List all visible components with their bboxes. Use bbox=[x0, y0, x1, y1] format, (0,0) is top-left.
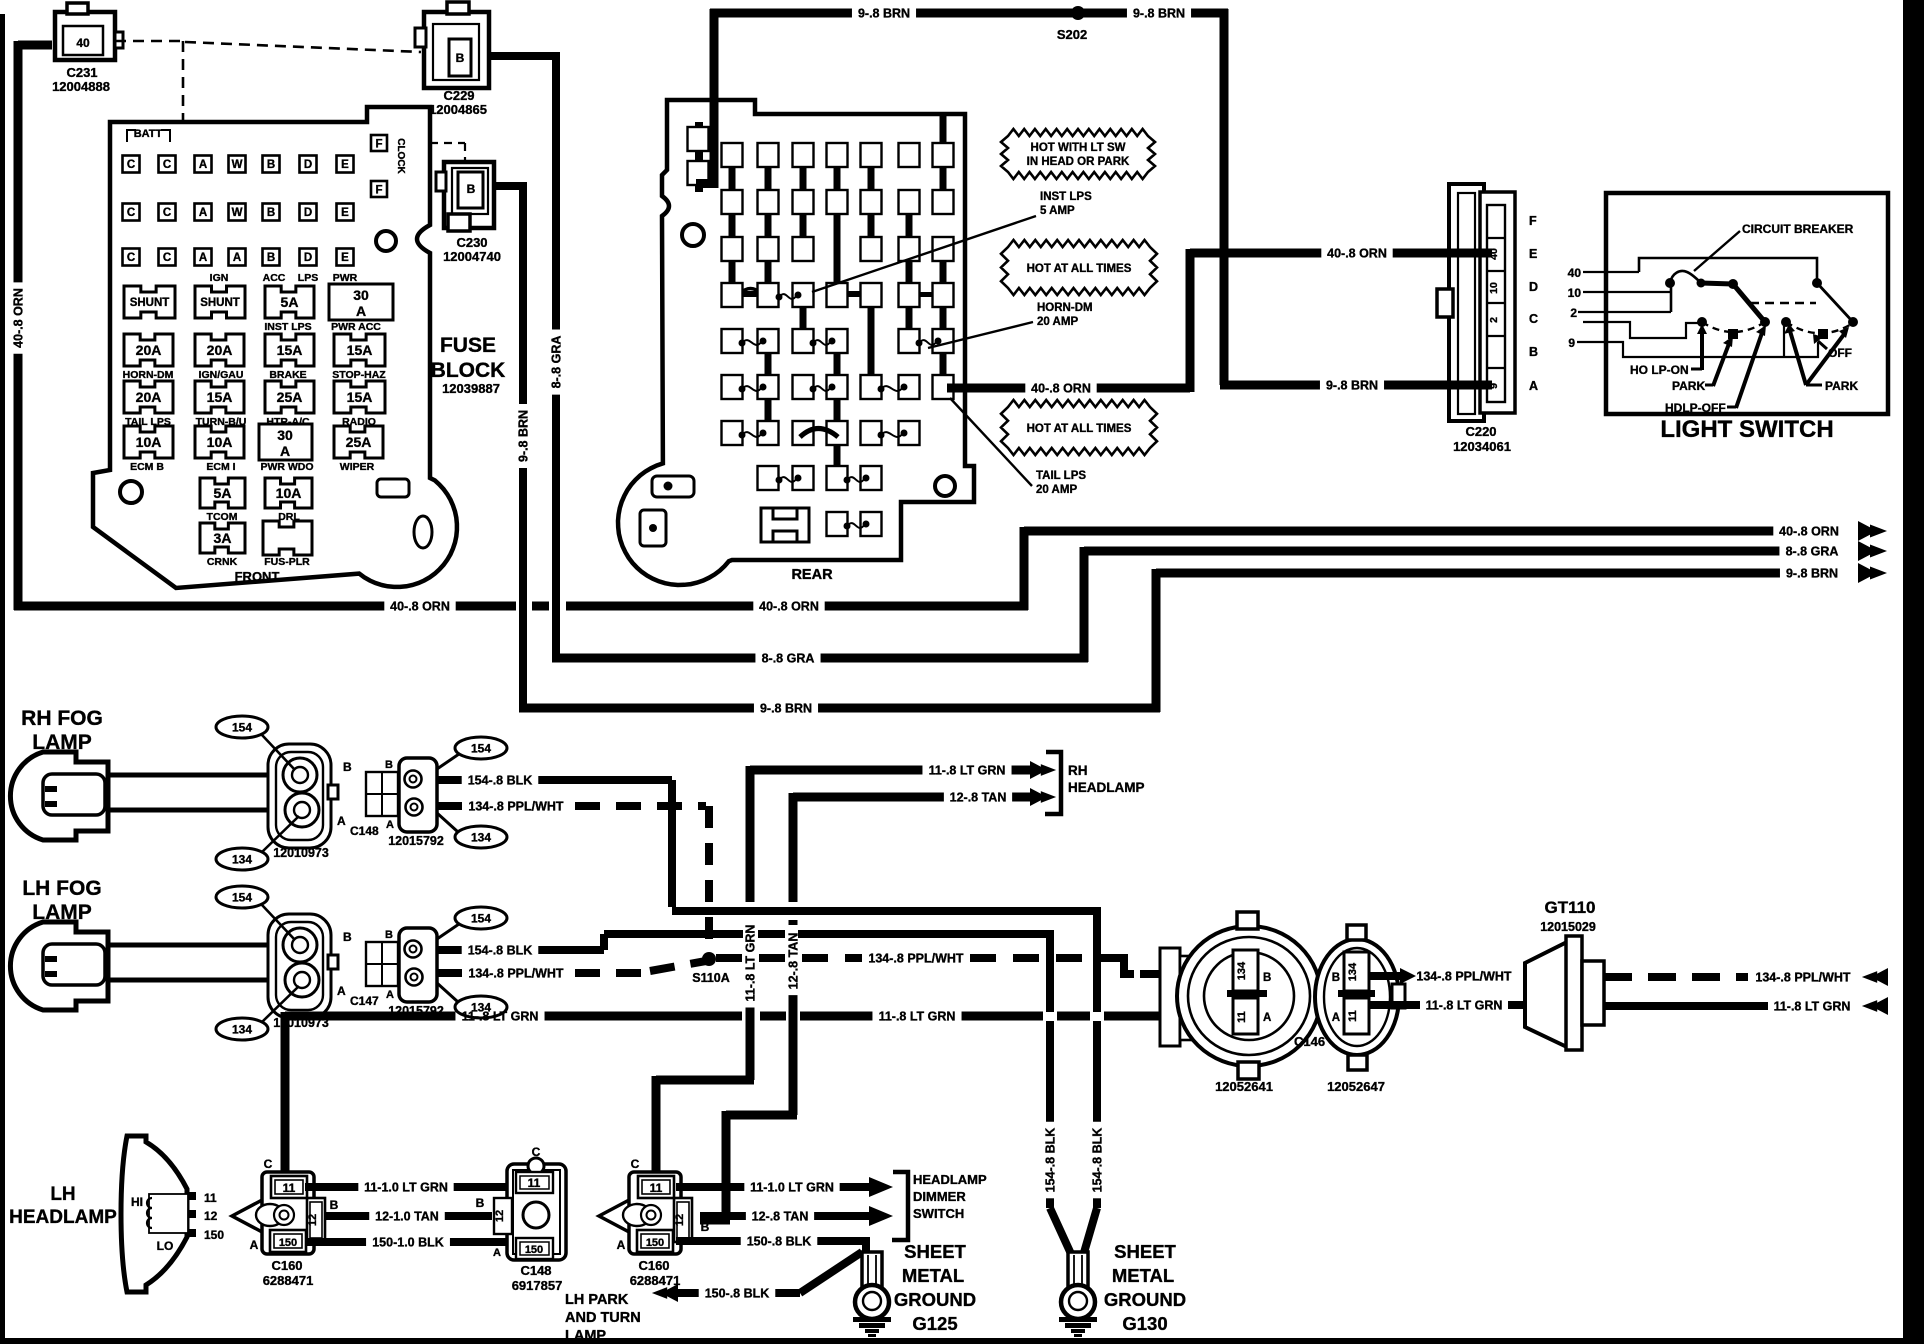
svg-text:METAL: METAL bbox=[1112, 1265, 1174, 1286]
fuse cavity E row2 bbox=[337, 204, 354, 221]
svg-text:10A: 10A bbox=[276, 485, 302, 501]
circuit tag 134 bbox=[455, 826, 507, 848]
svg-text:B: B bbox=[1529, 345, 1538, 359]
fuse 30A PWR WDO bbox=[259, 424, 312, 460]
svg-text:20A: 20A bbox=[207, 342, 233, 358]
svg-text:BRAKE: BRAKE bbox=[269, 369, 306, 381]
svg-text:B: B bbox=[467, 182, 476, 196]
svg-text:METAL: METAL bbox=[902, 1265, 964, 1286]
mount hole rear block upper-left bbox=[682, 224, 704, 246]
rear block pad r202 c5 bbox=[861, 190, 882, 214]
svg-text:11-.8 LT GRN: 11-.8 LT GRN bbox=[879, 1010, 956, 1024]
svg-text:PARK: PARK bbox=[1672, 379, 1705, 393]
svg-text:W: W bbox=[232, 207, 243, 219]
svg-text:30: 30 bbox=[353, 287, 369, 303]
wire 154-.8 BLK RH bbox=[437, 776, 462, 784]
svg-text:GROUND: GROUND bbox=[1104, 1289, 1186, 1310]
svg-text:A: A bbox=[250, 1238, 259, 1252]
svg-text:134-.8 PPL/WHT: 134-.8 PPL/WHT bbox=[468, 967, 564, 981]
svg-text:134: 134 bbox=[471, 831, 491, 845]
svg-text:150-1.0 BLK: 150-1.0 BLK bbox=[372, 1236, 444, 1250]
svg-text:G125: G125 bbox=[912, 1313, 957, 1334]
svg-text:150-.8 BLK: 150-.8 BLK bbox=[747, 1235, 812, 1249]
switch arm diagonal left bbox=[1733, 284, 1765, 322]
switch arm diagonal right bbox=[1817, 283, 1853, 322]
wire 150-1.0 BLK bbox=[305, 1238, 366, 1246]
fuse cavity D row3 bbox=[300, 249, 317, 266]
wire 134-.8 PPL/WHT RH drop dashed bbox=[705, 806, 713, 950]
svg-text:C148: C148 bbox=[520, 1263, 551, 1278]
fuse cavity A row3 bbox=[229, 249, 246, 266]
svg-text:C: C bbox=[127, 252, 135, 264]
callout HOT AT ALL TIMES lower bbox=[1001, 400, 1157, 455]
connector C147 bbox=[268, 914, 331, 1018]
rear block pad r249 c6 bbox=[899, 237, 920, 261]
svg-text:40-.8 ORN: 40-.8 ORN bbox=[759, 600, 819, 614]
circuit tag 154 bbox=[455, 907, 507, 929]
wire 12-1.0 TAN bbox=[325, 1212, 369, 1220]
svg-text:6917857: 6917857 bbox=[512, 1278, 563, 1293]
svg-text:11: 11 bbox=[283, 1181, 296, 1195]
fuse 20A IGN/GAU bbox=[195, 334, 244, 366]
svg-text:9-.8 BRN: 9-.8 BRN bbox=[858, 7, 910, 21]
svg-text:154-.8 BLK: 154-.8 BLK bbox=[468, 944, 533, 958]
svg-text:12: 12 bbox=[674, 1214, 686, 1226]
svg-text:150: 150 bbox=[204, 1228, 224, 1242]
svg-text:B: B bbox=[1263, 972, 1271, 984]
fuse block REAR outline bbox=[618, 100, 974, 585]
fuse link r9 c4-c5 bbox=[827, 512, 848, 536]
svg-text:9-.8 BRN: 9-.8 BRN bbox=[1133, 7, 1185, 21]
wire RH fog lamp leads bbox=[108, 773, 280, 778]
svg-text:12052641: 12052641 bbox=[1215, 1079, 1273, 1094]
svg-text:A: A bbox=[1529, 379, 1538, 393]
svg-text:PWR: PWR bbox=[333, 272, 358, 284]
svg-text:A: A bbox=[337, 984, 346, 998]
svg-text:LH PARK: LH PARK bbox=[565, 1292, 629, 1308]
svg-text:HEADLAMP: HEADLAMP bbox=[1068, 780, 1145, 795]
wire 154-.8 BLK LH drop bbox=[1046, 930, 1054, 1012]
wire 9-.8 BRN from C230 bbox=[492, 182, 523, 190]
svg-text:PWR WDO: PWR WDO bbox=[260, 461, 313, 473]
svg-text:PARK: PARK bbox=[1825, 379, 1858, 393]
svg-text:10: 10 bbox=[1568, 286, 1582, 300]
svg-text:8-.8 GRA: 8-.8 GRA bbox=[762, 652, 815, 666]
svg-text:RH FOG: RH FOG bbox=[21, 707, 103, 730]
rear block pad r249 c3 bbox=[793, 237, 814, 261]
svg-text:9-.8 BRN: 9-.8 BRN bbox=[517, 410, 531, 462]
svg-text:12: 12 bbox=[307, 1214, 319, 1226]
rear block bus bars bbox=[729, 143, 736, 305]
svg-text:HOT AT ALL TIMES: HOT AT ALL TIMES bbox=[1027, 423, 1132, 435]
svg-text:20A: 20A bbox=[136, 389, 162, 405]
svg-text:12015029: 12015029 bbox=[1540, 920, 1596, 934]
svg-text:12015792: 12015792 bbox=[388, 834, 444, 848]
svg-text:G130: G130 bbox=[1122, 1313, 1167, 1334]
detail rect in bulge bbox=[377, 479, 409, 497]
circuit tag 154 bbox=[216, 716, 268, 738]
bulb filament coil bbox=[147, 1198, 152, 1228]
wire 134-.8 PPL/WHT jog to C146 bbox=[1108, 958, 1134, 974]
svg-text:C: C bbox=[532, 1145, 541, 1159]
svg-text:134-.8 PPL/WHT: 134-.8 PPL/WHT bbox=[1416, 970, 1512, 984]
svg-text:W: W bbox=[232, 159, 243, 171]
svg-text:HOT WITH LT SW: HOT WITH LT SW bbox=[1031, 142, 1126, 154]
svg-text:12004865: 12004865 bbox=[429, 102, 487, 117]
svg-text:BLOCK: BLOCK bbox=[431, 359, 506, 382]
circuit tag 134 bbox=[216, 848, 268, 870]
connector C148 6917857 bbox=[507, 1164, 566, 1260]
svg-text:B: B bbox=[456, 51, 465, 65]
fuse 20A HORN-DM bbox=[124, 334, 173, 366]
svg-text:15A: 15A bbox=[347, 342, 373, 358]
pointer HORN-DM bbox=[928, 322, 1033, 348]
svg-text:HO LP-ON: HO LP-ON bbox=[1630, 363, 1689, 377]
fuse SHUNT 1 bbox=[124, 286, 175, 318]
wire 150-.8 BLK from park lamp bbox=[678, 1289, 699, 1297]
svg-text:INST LPS: INST LPS bbox=[1040, 191, 1092, 203]
svg-text:F: F bbox=[375, 185, 382, 197]
wire LH fog lamp leads bbox=[108, 943, 280, 948]
svg-text:LIGHT SWITCH: LIGHT SWITCH bbox=[1660, 416, 1833, 443]
connector C220 bbox=[1449, 184, 1484, 421]
svg-text:12004888: 12004888 bbox=[52, 79, 110, 94]
svg-text:12004740: 12004740 bbox=[443, 249, 501, 264]
wire 9-.8 BRN into pin A bbox=[1446, 381, 1492, 390]
arrow 40-.8 ORN bbox=[1858, 521, 1877, 541]
svg-text:CIRCUIT BREAKER: CIRCUIT BREAKER bbox=[1742, 222, 1854, 236]
arrow 11-.8 LT GRN bbox=[1871, 997, 1888, 1015]
svg-text:SHUNT: SHUNT bbox=[130, 297, 170, 309]
svg-text:D: D bbox=[1529, 280, 1538, 294]
svg-text:C: C bbox=[631, 1157, 640, 1171]
svg-text:A: A bbox=[199, 252, 207, 264]
fuse 25A WIPER bbox=[334, 426, 383, 458]
fuse 15A STOP-HAZ bbox=[334, 334, 385, 366]
svg-text:25A: 25A bbox=[277, 389, 303, 405]
svg-text:C160: C160 bbox=[271, 1258, 302, 1273]
svg-text:12: 12 bbox=[204, 1209, 218, 1223]
svg-text:SWITCH: SWITCH bbox=[913, 1206, 964, 1221]
fuse cavity C row1 bbox=[123, 156, 140, 173]
rear block pad r155 c1 bbox=[722, 143, 743, 167]
svg-text:FRONT: FRONT bbox=[235, 569, 280, 584]
svg-text:B: B bbox=[330, 1198, 339, 1212]
svg-text:150-.8 BLK: 150-.8 BLK bbox=[705, 1287, 770, 1301]
rear block pad r249 c1 bbox=[722, 237, 743, 261]
svg-text:10A: 10A bbox=[136, 434, 162, 450]
fuse cavity B row1 bbox=[263, 156, 280, 173]
callout HOT WITH LT SW IN HEAD OR PARK bbox=[1001, 129, 1155, 179]
pointer TAIL LPS bbox=[950, 398, 1032, 486]
dashed link clock F to C230 bbox=[388, 142, 465, 144]
light switch box bbox=[1606, 193, 1888, 414]
wire 150-.8 BLK to ground bbox=[676, 1237, 741, 1245]
svg-text:150: 150 bbox=[646, 1237, 664, 1249]
svg-text:HEADLAMP: HEADLAMP bbox=[913, 1172, 987, 1187]
svg-text:2: 2 bbox=[1488, 317, 1500, 323]
wire 9-.8 BRN drop to C220 pin A bbox=[1220, 9, 1229, 385]
svg-text:154: 154 bbox=[232, 721, 252, 735]
wire 11-.8 LT GRN to GT110 bbox=[1369, 1001, 1420, 1009]
svg-text:C: C bbox=[163, 207, 171, 219]
svg-text:B: B bbox=[385, 759, 393, 771]
svg-text:134-.8 PPL/WHT: 134-.8 PPL/WHT bbox=[868, 952, 964, 966]
svg-text:11: 11 bbox=[1347, 1010, 1359, 1022]
mount hole front block lower-left bbox=[120, 481, 142, 503]
svg-text:134: 134 bbox=[1236, 961, 1248, 980]
rear block H pad r9 bbox=[761, 508, 809, 542]
dashed contact arc right bbox=[1786, 322, 1853, 333]
svg-text:B: B bbox=[267, 159, 275, 171]
wire 134-.8 PPL/WHT right dashed bbox=[1604, 973, 1748, 981]
svg-text:A: A bbox=[617, 1238, 626, 1252]
rear block bottom terminal 1 bbox=[652, 476, 694, 497]
fuse 20A TAIL LPS bbox=[124, 381, 173, 413]
fuse cavity D row1 bbox=[300, 156, 317, 173]
svg-text:ECM B: ECM B bbox=[130, 461, 164, 473]
fuse 5A INST LPS bbox=[265, 286, 314, 318]
svg-text:C146: C146 bbox=[1294, 1034, 1325, 1049]
fuse link HORN-DM r5 c6-c7 bbox=[899, 329, 920, 353]
wire 12-.8 TAN vertical bbox=[789, 793, 798, 902]
wire 12-.8 TAN to dimmer bbox=[700, 1212, 746, 1220]
pin 150 C160 bbox=[637, 1230, 673, 1252]
detail oval in bulge bbox=[414, 516, 432, 548]
svg-text:S110A: S110A bbox=[692, 971, 730, 985]
svg-text:A: A bbox=[337, 814, 346, 828]
fuse cavity B row2 bbox=[263, 204, 280, 221]
svg-text:LH: LH bbox=[50, 1184, 75, 1205]
svg-text:20 AMP: 20 AMP bbox=[1037, 316, 1078, 328]
svg-text:A: A bbox=[233, 252, 241, 264]
terminal oval C160 bbox=[256, 1204, 284, 1226]
rear block pad r202 c6 bbox=[899, 190, 920, 214]
wire 40-.8 ORN riser and upper run to right arrow bbox=[1020, 527, 1029, 610]
svg-text:12-.8 TAN: 12-.8 TAN bbox=[752, 1210, 809, 1224]
svg-text:A: A bbox=[386, 989, 394, 1001]
dashed contact arc left bbox=[1702, 322, 1765, 332]
svg-text:A: A bbox=[1263, 1012, 1271, 1024]
wire 134-.8 PPL/WHT main dashed bbox=[716, 954, 862, 962]
svg-text:HDLP-OFF: HDLP-OFF bbox=[1665, 401, 1726, 415]
ground symbol G125 bbox=[853, 1317, 891, 1322]
svg-text:HORN-DM: HORN-DM bbox=[123, 369, 174, 381]
svg-text:E: E bbox=[341, 159, 349, 171]
wire 9-.8 BRN entry into rear block bbox=[710, 9, 719, 188]
svg-text:BATT: BATT bbox=[134, 128, 163, 140]
svg-text:C220: C220 bbox=[1465, 424, 1496, 439]
svg-text:15A: 15A bbox=[277, 342, 303, 358]
wire 9-.8 BRN horizontal bbox=[519, 704, 754, 713]
svg-text:B: B bbox=[476, 1196, 485, 1210]
circuit breaker element bbox=[1670, 271, 1701, 283]
svg-text:A: A bbox=[356, 303, 366, 319]
svg-text:11-.8 LT GRN: 11-.8 LT GRN bbox=[744, 925, 758, 1002]
wire 8-.8 GRA horizontal bbox=[552, 654, 755, 663]
svg-text:C: C bbox=[163, 159, 171, 171]
pin 11 C160 bbox=[638, 1176, 674, 1198]
switch bus upper bbox=[1639, 258, 1817, 281]
svg-text:40-.8 ORN: 40-.8 ORN bbox=[390, 600, 450, 614]
fuse 10A ECM I bbox=[195, 426, 244, 458]
fuse 5A TCOM bbox=[200, 478, 245, 508]
fuse block FRONT outline bbox=[93, 107, 457, 588]
RH FOG lamp bbox=[10, 752, 108, 840]
cavity F upper bbox=[371, 135, 387, 151]
pin 134 C146 bbox=[1233, 950, 1258, 991]
connector C146 12052641 bbox=[1160, 948, 1180, 1046]
svg-text:8-.8 GRA: 8-.8 GRA bbox=[550, 336, 564, 389]
svg-text:SHUNT: SHUNT bbox=[200, 297, 240, 309]
fuse 15A TURN-B/U bbox=[195, 381, 244, 413]
svg-text:LO: LO bbox=[157, 1239, 174, 1253]
svg-text:E: E bbox=[341, 252, 349, 264]
svg-text:12-.8 TAN: 12-.8 TAN bbox=[787, 933, 801, 990]
pin 134 12052647 bbox=[1344, 952, 1369, 991]
svg-text:B: B bbox=[267, 207, 275, 219]
fuse cavity C row1 bbox=[159, 156, 176, 173]
svg-text:C: C bbox=[1529, 312, 1538, 326]
svg-text:30: 30 bbox=[277, 427, 293, 443]
svg-text:LPS: LPS bbox=[298, 272, 318, 284]
svg-text:134-.8 PPL/WHT: 134-.8 PPL/WHT bbox=[1755, 971, 1851, 985]
svg-text:A: A bbox=[199, 207, 207, 219]
svg-text:3A: 3A bbox=[214, 530, 232, 546]
rear block pad r155 c4 bbox=[827, 143, 848, 167]
wire 11-.8 LT GRN drop to C160 bbox=[281, 1012, 290, 1176]
rear block row4 pads c6 c7 bbox=[899, 283, 920, 307]
svg-text:9-.8 BRN: 9-.8 BRN bbox=[1786, 567, 1838, 581]
fuse cavity D row2 bbox=[300, 204, 317, 221]
svg-text:IGN/GAU: IGN/GAU bbox=[199, 369, 244, 381]
fuse cavity E row1 bbox=[337, 156, 354, 173]
circuit tag 154 bbox=[216, 886, 268, 908]
svg-text:IN HEAD OR PARK: IN HEAD OR PARK bbox=[1027, 156, 1130, 168]
pin 150 bulb bbox=[188, 1229, 196, 1237]
svg-text:11: 11 bbox=[1236, 1011, 1248, 1023]
svg-text:SHEET: SHEET bbox=[904, 1241, 966, 1262]
svg-text:A: A bbox=[199, 159, 207, 171]
svg-text:20A: 20A bbox=[136, 342, 162, 358]
svg-text:134: 134 bbox=[232, 1023, 252, 1037]
fuse link r8 c4-c5 bbox=[827, 466, 848, 490]
svg-text:A: A bbox=[386, 819, 394, 831]
wire 11-1.0 LT GRN to dimmer bbox=[676, 1183, 744, 1191]
pin 12 C148 bbox=[494, 1198, 512, 1234]
svg-text:E: E bbox=[341, 207, 349, 219]
svg-text:40-.8 ORN: 40-.8 ORN bbox=[12, 288, 26, 348]
connector C230 bbox=[444, 162, 494, 228]
svg-text:DIMMER: DIMMER bbox=[913, 1189, 966, 1204]
svg-text:9-.8 BRN: 9-.8 BRN bbox=[760, 702, 812, 716]
svg-text:10A: 10A bbox=[207, 434, 233, 450]
svg-text:11: 11 bbox=[650, 1181, 663, 1195]
fuse 10A ECM B bbox=[124, 426, 173, 458]
fuse cavity C row2 bbox=[159, 204, 176, 221]
svg-text:C147: C147 bbox=[350, 994, 379, 1008]
connector 12015792 bbox=[366, 942, 398, 986]
pin 12 bulb bbox=[188, 1210, 196, 1218]
rear block pad r249 c2 bbox=[758, 237, 779, 261]
svg-text:GT110: GT110 bbox=[1544, 898, 1595, 917]
svg-text:12-1.0 TAN: 12-1.0 TAN bbox=[375, 1210, 439, 1224]
svg-text:F: F bbox=[375, 139, 382, 151]
rear block pad r155 c6 bbox=[899, 143, 920, 167]
fuse link r7 c1-c2 bbox=[722, 421, 743, 445]
rear block pad r202 c1 bbox=[722, 190, 743, 214]
wire 40-.8 ORN from C231 down left edge bbox=[18, 41, 52, 50]
pointer INST LPS bbox=[812, 216, 1036, 292]
svg-text:12010973: 12010973 bbox=[273, 846, 329, 860]
wire 154-.8 BLK LH bbox=[437, 946, 462, 954]
ground symbol G130 bbox=[1059, 1317, 1097, 1322]
fuse cavity A row1 bbox=[195, 156, 212, 173]
svg-text:9-.8 BRN: 9-.8 BRN bbox=[1326, 379, 1378, 393]
dashed drop to fuse C cavity bbox=[182, 41, 185, 200]
svg-text:LH FOG: LH FOG bbox=[22, 877, 101, 900]
fuse SHUNT 2 bbox=[195, 286, 245, 318]
svg-text:HI: HI bbox=[131, 1195, 143, 1209]
LH FOG lamp bbox=[10, 922, 108, 1010]
arrow 134-.8 PPL/WHT bbox=[1871, 968, 1888, 986]
wire 8-.8 GRA riser to arrow bbox=[1080, 547, 1089, 662]
pin 12 C160 bbox=[674, 1198, 692, 1242]
fuse link r5 c1-c2 bbox=[722, 329, 743, 353]
splice S202 bbox=[1071, 6, 1085, 20]
svg-text:C231: C231 bbox=[66, 65, 97, 80]
svg-text:15A: 15A bbox=[207, 389, 233, 405]
svg-text:12034061: 12034061 bbox=[1453, 439, 1511, 454]
svg-text:WIPER: WIPER bbox=[340, 461, 375, 473]
svg-text:REAR: REAR bbox=[791, 567, 833, 583]
svg-text:B: B bbox=[343, 760, 352, 774]
fuse cavity B row3 bbox=[263, 249, 280, 266]
fuse 10A DRL bbox=[265, 478, 312, 508]
connector C229 bbox=[424, 12, 489, 88]
terminal oval C160 bbox=[623, 1204, 651, 1226]
svg-text:11: 11 bbox=[528, 1176, 541, 1190]
svg-text:B: B bbox=[1332, 972, 1340, 984]
svg-text:ACC: ACC bbox=[263, 272, 286, 284]
svg-text:D: D bbox=[304, 252, 312, 264]
svg-text:A: A bbox=[493, 1247, 501, 1259]
ground lug G125 bbox=[862, 1252, 882, 1290]
wire 9-.8 BRN riser to arrow bbox=[1152, 569, 1161, 712]
svg-text:11: 11 bbox=[204, 1191, 217, 1205]
svg-text:134: 134 bbox=[232, 853, 252, 867]
rear block row4 link c1-c2 bbox=[726, 291, 765, 297]
svg-text:150: 150 bbox=[279, 1237, 297, 1249]
svg-text:12039887: 12039887 bbox=[442, 381, 500, 396]
svg-text:12052647: 12052647 bbox=[1327, 1079, 1385, 1094]
svg-text:154: 154 bbox=[232, 891, 252, 905]
svg-text:154-.8 BLK: 154-.8 BLK bbox=[468, 774, 533, 788]
wire 11-.8 LT GRN vertical bbox=[746, 766, 755, 902]
fuse cavity W row1 bbox=[229, 156, 246, 173]
pin 12 C160 bbox=[307, 1198, 325, 1242]
switch arm contact run bbox=[1701, 283, 1733, 284]
fuse cavity A row3 bbox=[195, 249, 212, 266]
svg-text:12: 12 bbox=[494, 1210, 506, 1222]
svg-text:SHEET: SHEET bbox=[1114, 1241, 1176, 1262]
wire 154-.8 BLK RH drop bbox=[1093, 907, 1101, 1012]
wire 134-.8 PPL/WHT to GT110 bbox=[1369, 972, 1400, 980]
svg-text:C229: C229 bbox=[443, 88, 474, 103]
pin 150 C160 bbox=[270, 1230, 306, 1252]
rear block pad r155 c3 bbox=[793, 143, 814, 167]
svg-text:5 AMP: 5 AMP bbox=[1040, 205, 1075, 217]
